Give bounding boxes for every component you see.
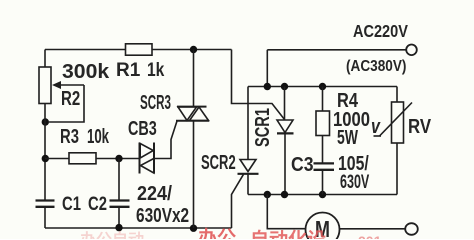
resistor R1 (126, 44, 153, 55)
node bridge top left (264, 83, 271, 90)
label 630Vx2 (136, 206, 189, 226)
wire AC drop to bridge (266, 50, 268, 87)
thyristor SCR1 (277, 87, 294, 195)
wire top rail right of R1 (152, 49, 232, 51)
label 1k (147, 61, 164, 80)
label R4 (337, 91, 358, 111)
diac CB3 (140, 143, 155, 174)
node SCR3 bottom (190, 225, 197, 232)
node R2 wiper junction (42, 118, 49, 125)
watermark red right (358, 234, 381, 240)
capacitor C3 (314, 163, 335, 194)
node junction SCR3 top (190, 46, 197, 53)
node bridge top R4 (319, 83, 326, 90)
label 10k (87, 127, 109, 147)
label R2 (61, 89, 80, 109)
wire SCR1 gate feed (232, 50, 285, 120)
node bridge bottom C3 (319, 191, 326, 198)
label 1000 (333, 110, 370, 130)
wire bridge top bus (248, 86, 397, 88)
wire left rail middle (44, 104, 46, 201)
label C3 (291, 155, 314, 175)
thyristor SCR2 (232, 87, 259, 229)
label 630V (340, 173, 369, 192)
label 224/ (137, 184, 172, 204)
triac SCR3 (176, 50, 209, 229)
node bridge bottom motor (264, 191, 271, 198)
watermark red left (80, 233, 144, 240)
label C2 (88, 195, 107, 214)
motor M (306, 213, 340, 240)
wire motor drop (267, 195, 305, 229)
label 5W (337, 128, 358, 148)
varistor RV (374, 87, 413, 195)
label SCR3 (140, 93, 171, 113)
label AC220V (353, 23, 408, 41)
label C1 (62, 195, 81, 214)
node R3 right (115, 155, 122, 162)
watermark red center (250, 231, 326, 240)
node C2 bottom (115, 224, 122, 231)
resistor R4 (316, 87, 330, 164)
wire motor to terminal (340, 228, 406, 230)
wire bridge bottom bus (248, 194, 397, 196)
label R1 (116, 61, 140, 80)
capacitor C1 (36, 201, 55, 229)
watermark red middle (198, 229, 236, 240)
node R3 left (42, 155, 49, 162)
label SCR2 (201, 153, 236, 173)
wire AC220V lead (267, 49, 406, 51)
label CB3 (128, 119, 157, 139)
label SCR1 vertical (253, 108, 273, 147)
node bridge top SCR1 (281, 83, 288, 90)
resistor R3 (45, 153, 140, 164)
label 105/ (338, 154, 369, 174)
label M motor (315, 218, 330, 240)
terminal output (405, 223, 418, 235)
label (AC380V) (346, 59, 406, 75)
label v varistor (371, 117, 380, 137)
wire bottom left bus (45, 227, 232, 229)
label 300k (62, 62, 109, 82)
wire CB3 to SCR3 gate (154, 121, 177, 159)
terminal AC220V (406, 45, 417, 56)
wire top rail left (45, 49, 126, 51)
node bridge bottom SCR1 (281, 191, 288, 198)
wire left rail top (44, 50, 46, 68)
label R3 (60, 127, 79, 147)
capacitor C2 (110, 159, 130, 228)
label RV (408, 117, 431, 137)
potentiometer R2 (39, 67, 84, 122)
